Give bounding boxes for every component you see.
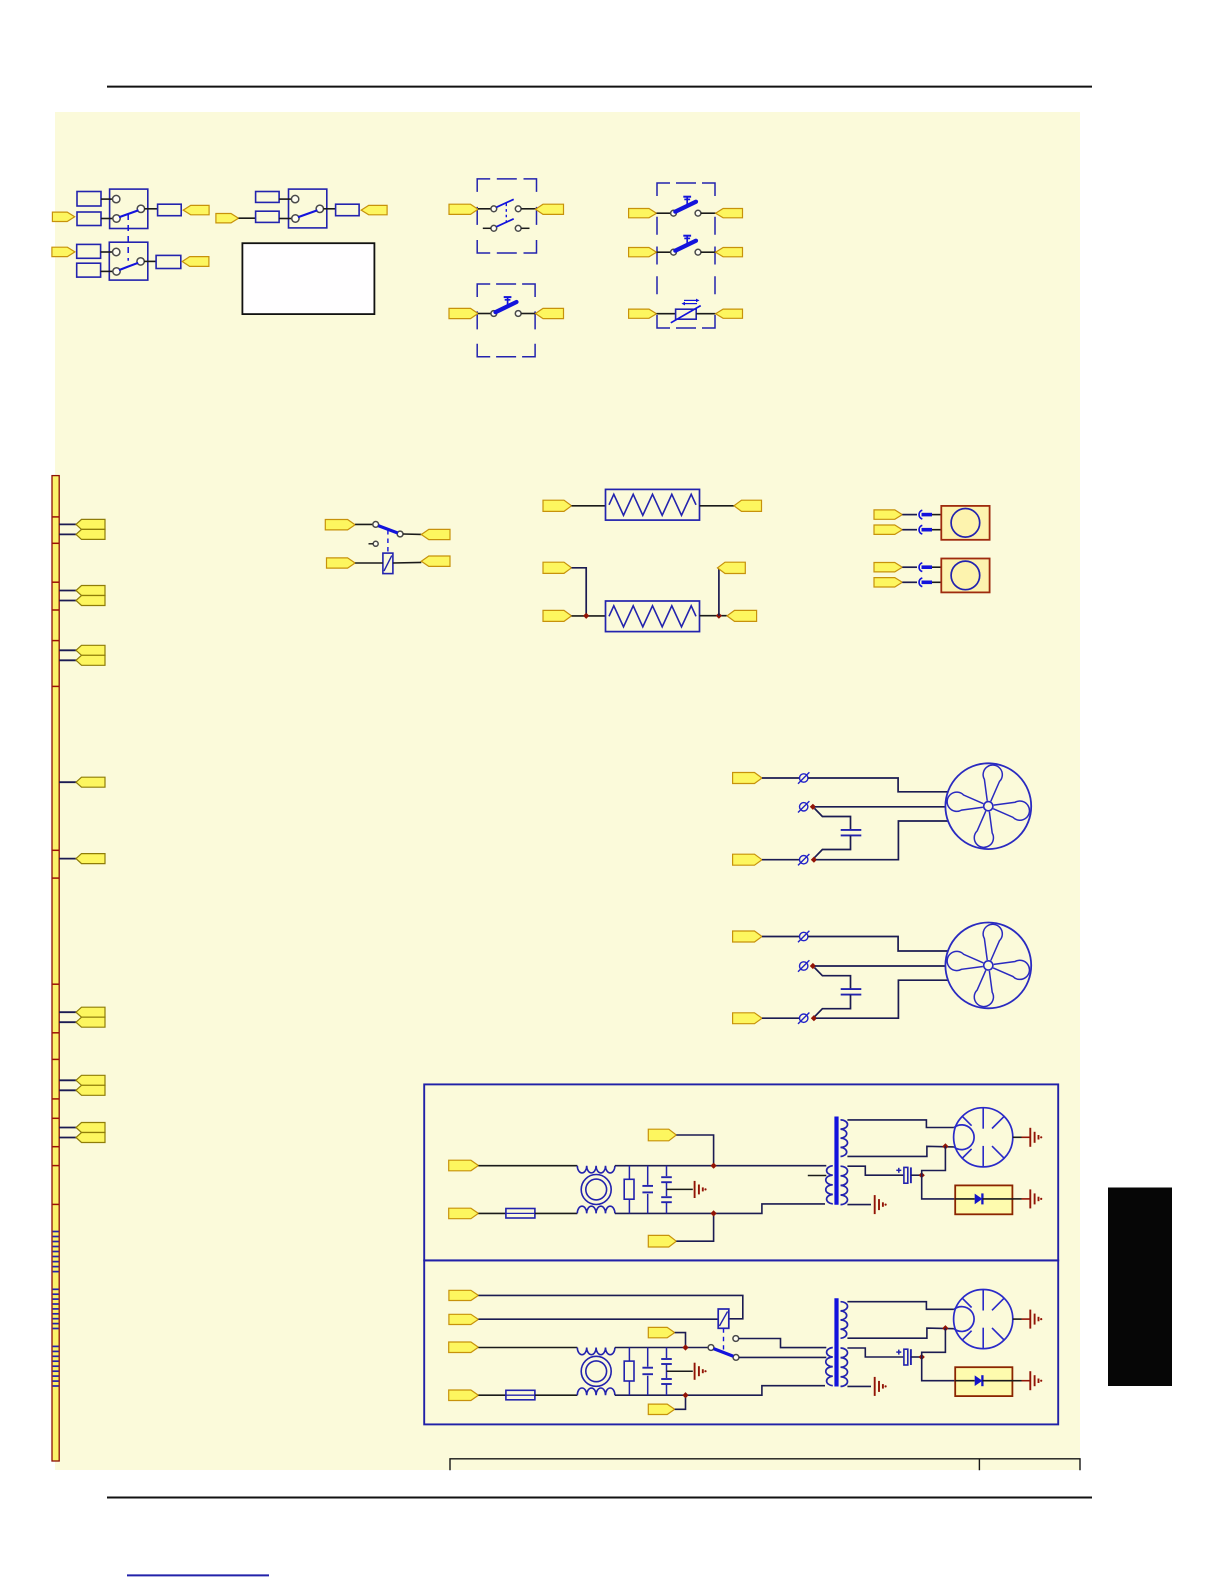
wire from capacitor: [814, 836, 850, 858]
wire filament bottom: [847, 1385, 871, 1387]
magnetron PSU1 vanes: [963, 1108, 1005, 1167]
bus connector CN8 (upper): [76, 1123, 105, 1133]
SW5 thermostat body: [676, 309, 697, 319]
wire: [657, 313, 676, 315]
switch SW1 pole A terminal box upper: [77, 192, 101, 207]
schematic background sheet: [55, 112, 1080, 1470]
connector PSU2 relay supply 2: [449, 1314, 479, 1324]
ground PSU1 transformer: [874, 1195, 876, 1214]
page header rule: [107, 86, 1092, 88]
HV diode PSU2: [955, 1380, 975, 1382]
junction: [810, 804, 816, 810]
heater R2 body: [606, 601, 700, 632]
wire: [101, 218, 113, 220]
bus wire tick group 3: [53, 1346, 59, 1386]
transformer T PSU1 core: [834, 1117, 838, 1205]
power unit box 2 outline: [424, 1260, 1058, 1424]
switch SW2 pin 2: [292, 215, 299, 222]
wire: [700, 505, 735, 507]
transformer T PSU1 tap stub: [808, 1175, 827, 1177]
bus connector CN1 (upper): [76, 519, 105, 529]
connector from heater R1: [734, 500, 762, 511]
wire: [144, 260, 156, 262]
relay K2 pin main: [733, 1355, 739, 1361]
choke L PSU1 lower winding: [577, 1206, 615, 1213]
ground PSU2 transformer: [874, 1377, 876, 1396]
lamp LP2 bulb: [951, 561, 980, 590]
wire: [478, 1318, 718, 1320]
wire: [279, 198, 292, 200]
wire: [902, 514, 917, 516]
inline terminal: [919, 525, 922, 534]
heater R1 body: [606, 489, 700, 520]
inline connector: [800, 856, 808, 864]
inline terminal: [919, 578, 922, 587]
bus connector CN5: [76, 854, 105, 864]
ground PSU2 filter: [694, 1363, 696, 1380]
connector to relay K1 coil: [327, 558, 356, 568]
junction: [919, 1172, 925, 1178]
connector from SW5 thermostat: [716, 309, 743, 318]
wire: [59, 1079, 76, 1081]
relay K2 coil: [718, 1309, 729, 1328]
wire: [144, 208, 157, 210]
ground PSU2 diode: [1029, 1371, 1031, 1390]
wire HV bottom: [847, 1328, 954, 1338]
wire to diode: [922, 1357, 956, 1381]
connector PSU2 relay supply 1: [449, 1290, 479, 1300]
connector to SW1 pole A: [52, 212, 74, 221]
wire: [701, 251, 716, 253]
switch SW3 boundary: [477, 179, 536, 253]
switch SW2 pin 3: [316, 205, 323, 212]
wire: [932, 529, 941, 531]
wire: [323, 208, 335, 210]
SW1 mechanical link (dashed): [127, 214, 129, 261]
wire: [478, 1165, 577, 1167]
relay K2 pin common: [708, 1345, 714, 1351]
wire: [762, 859, 799, 861]
SW5 row A pin R: [695, 210, 701, 216]
junction: [811, 1015, 817, 1021]
cable bus: [52, 476, 59, 1461]
wire: [902, 566, 917, 568]
fan FM2 hub: [984, 961, 993, 970]
inline connector: [800, 774, 808, 782]
fan FM1 hub: [984, 802, 993, 811]
switch SW4 boundary: [477, 284, 535, 357]
transformer T PSU1 HV secondary: [841, 1120, 848, 1157]
lamp LP1 bulb: [951, 509, 980, 538]
connector PSU1 line in: [449, 1160, 479, 1171]
inline terminal: [919, 510, 922, 519]
wire: [808, 937, 948, 952]
connector from heater R2 return B: [727, 610, 757, 621]
fan FM1 body: [945, 763, 1031, 849]
switch SW3 contact 2 lever: [496, 219, 513, 227]
connector from SW2: [361, 205, 387, 214]
wire: [101, 251, 113, 253]
switch SW3 contact 1 lever: [496, 199, 513, 207]
wire to diode: [922, 1175, 956, 1199]
wire: [478, 1212, 506, 1214]
switch SW1 pole B terminal box lower: [77, 263, 101, 277]
fan FM2 body: [945, 923, 1031, 1009]
wire stub: [483, 227, 491, 229]
connector to heater R1: [543, 500, 572, 511]
connector to SW4: [449, 308, 478, 318]
wire: [1012, 1380, 1021, 1382]
switch SW2 terminal box upper: [256, 192, 280, 203]
junction: [682, 1344, 688, 1350]
magnetron PSU2 filament arc: [954, 1307, 974, 1332]
wire: [932, 581, 941, 583]
X capacitor PSU1: [647, 1166, 649, 1185]
wire from main contact to tap: [739, 1356, 826, 1358]
connector to relay K1 common: [325, 520, 355, 530]
wire filament top: [847, 1348, 903, 1357]
wire: [667, 1370, 693, 1372]
wire: [932, 514, 941, 516]
wire: [815, 965, 946, 967]
wire: [762, 1017, 799, 1019]
transformer T PSU2 filament winding: [841, 1348, 848, 1386]
wire: [59, 1011, 76, 1013]
relay K1 link dashed: [387, 530, 389, 553]
wire: [59, 523, 76, 525]
magnetron PSU1 body: [954, 1108, 1013, 1167]
transformer T PSU2 HV secondary: [841, 1302, 848, 1339]
wire: [700, 615, 728, 617]
switch SW1 pole A pin 1: [113, 195, 120, 202]
switch SW2 terminal box lower: [256, 211, 280, 222]
connector to SW5 row B: [629, 248, 657, 257]
wire: [667, 1188, 693, 1190]
connector to SW1 pole B: [52, 247, 75, 256]
wire stub: [369, 543, 374, 545]
fuse F PSU2: [506, 1390, 535, 1400]
connector PSU2 aux bottom: [648, 1404, 674, 1414]
wire: [696, 313, 715, 315]
wire: [59, 533, 76, 535]
wire: [59, 590, 76, 592]
wire: [521, 313, 535, 315]
connector to fan FM2 line 2: [733, 1013, 762, 1024]
wire: [535, 1394, 577, 1396]
wire: [808, 778, 948, 792]
footer table: [450, 1459, 1080, 1471]
wire: [675, 1395, 686, 1409]
bleeder resistor PSU1: [628, 1166, 630, 1214]
switch SW1 output box B: [156, 255, 181, 268]
ground PSU1 filter: [694, 1181, 696, 1198]
junction: [811, 857, 817, 863]
wire from NO: [739, 1339, 827, 1348]
fan FM1 blades: [941, 759, 1035, 853]
switch SW2 lever: [298, 210, 318, 217]
HV diode PSU2 box: [955, 1367, 1012, 1396]
wire: [615, 1204, 825, 1214]
junction: [583, 613, 589, 619]
ground PSU2 magnetron: [1029, 1310, 1031, 1329]
magnetron PSU2 vanes: [963, 1290, 1005, 1349]
HV capacitor PSU1: [904, 1167, 908, 1183]
wire: [59, 659, 76, 661]
switch SW1 pole B body: [109, 242, 148, 280]
wire: [355, 562, 383, 564]
SW5 thermostat diagonal: [671, 306, 701, 323]
switch SW1 pole B lever: [119, 263, 138, 270]
lamp LP1 body: [941, 506, 989, 540]
wire: [911, 1356, 922, 1358]
switch SW2 pin 1: [291, 195, 298, 202]
transformer T PSU1 primary: [826, 1166, 833, 1204]
bus connector CN3 (upper): [76, 645, 105, 655]
connector to fan FM1 line 1: [733, 773, 762, 784]
wire: [355, 523, 373, 525]
SW5 row B pin R: [695, 249, 701, 255]
connector from SW1 pole A: [183, 205, 209, 214]
switch block SW5 boundary: [657, 183, 715, 328]
SW5 row B pin L: [671, 249, 677, 255]
switch SW1 pole B terminal box upper: [77, 244, 101, 258]
junction: [942, 1143, 948, 1149]
connector to lamp LP2 (lower): [874, 578, 902, 587]
junction: [919, 1354, 925, 1360]
bus wire tick group 2: [53, 1289, 59, 1328]
wire: [816, 980, 948, 1018]
switch SW3 contact 1 pin L: [491, 206, 497, 212]
connector to lamp LP2 (upper): [874, 563, 902, 572]
wire: [478, 1347, 577, 1349]
connector from relay K1 coil: [421, 556, 450, 566]
relay K2 pin NO: [733, 1336, 739, 1342]
wire: [657, 212, 671, 214]
bus wire tick group 1: [53, 1232, 59, 1272]
wire to capacitor: [815, 968, 851, 989]
connector PSU2 line in: [449, 1342, 479, 1353]
connector from SW5 row A: [716, 209, 743, 218]
connector to heater R2 feed B: [543, 610, 572, 621]
wire: [572, 505, 606, 507]
connector to SW2: [216, 214, 239, 223]
wire: [762, 936, 799, 938]
wire: [932, 566, 941, 568]
page number tab: [1108, 1188, 1172, 1387]
X capacitor PSU2: [647, 1348, 649, 1367]
switch SW1 pole A body: [110, 189, 148, 228]
bus connector CN1 (lower): [76, 529, 105, 539]
switch SW1 pole A pin 3: [137, 205, 144, 212]
wire: [572, 568, 587, 616]
SW5 row B lever: [675, 241, 696, 251]
heater R2 element: [609, 606, 696, 627]
SW5 row A lever: [675, 202, 696, 212]
inline terminal: [919, 563, 922, 572]
HV diode PSU1 box: [955, 1185, 1012, 1214]
Y capacitors PSU1: [666, 1166, 668, 1177]
junction: [942, 1325, 948, 1331]
Y capacitors PSU2: [666, 1348, 668, 1359]
switch SW1 pole B pin 2: [113, 268, 120, 275]
HV capacitor PSU2: [904, 1349, 908, 1365]
connector from relay K1 contact: [421, 529, 450, 539]
notes box: [242, 243, 374, 314]
wire: [478, 1295, 742, 1318]
wire: [1013, 1318, 1022, 1320]
wire: [615, 1165, 826, 1167]
SW5 thermostat arrows: [684, 299, 696, 301]
wire: [393, 561, 421, 564]
connector to heater R2 feed A: [543, 562, 572, 573]
relay K2 link dashed: [723, 1328, 725, 1349]
switch SW1 pole B pin 3: [137, 258, 144, 265]
transformer T PSU2 core: [834, 1298, 838, 1386]
inline connector: [800, 803, 808, 811]
magnetron PSU1 filament arc: [954, 1125, 974, 1150]
bleeder resistor PSU2: [628, 1348, 630, 1396]
connector from heater R2 return A: [718, 562, 746, 573]
choke L PSU2 lower winding: [577, 1388, 615, 1395]
connector PSU1 neutral in: [449, 1208, 479, 1219]
transformer T PSU1 filament winding: [841, 1166, 848, 1204]
junction: [710, 1163, 716, 1169]
power unit box 1 outline: [424, 1084, 1058, 1260]
wire: [478, 208, 491, 210]
footer link underline: [127, 1574, 269, 1576]
relay K1 pin common: [373, 522, 379, 528]
bus connector CN8 (lower): [76, 1133, 105, 1143]
choke L PSU2 upper winding: [577, 1348, 615, 1355]
lamp LP2 body: [941, 559, 989, 593]
wire: [1013, 1136, 1022, 1138]
bus connector CN4: [76, 777, 105, 787]
wire filament top: [847, 1166, 903, 1175]
wire: [521, 208, 535, 210]
wire from capacitor: [814, 995, 850, 1017]
connector PSU1 aux bottom: [648, 1235, 676, 1247]
wire: [572, 615, 606, 617]
wire: [101, 270, 114, 272]
switch SW1 pole B pin 1: [113, 248, 120, 255]
wire: [657, 251, 671, 253]
bus connector CN2 (lower): [76, 596, 105, 606]
wire: [676, 1213, 713, 1241]
wire: [615, 1386, 825, 1396]
switch SW2 output box: [336, 204, 360, 216]
transformer T PSU2 primary: [826, 1348, 833, 1386]
wire: [59, 600, 76, 602]
wire: [239, 217, 256, 219]
magnetron PSU2 body: [954, 1290, 1013, 1349]
relay K1 pin NC: [373, 541, 378, 546]
wire: [816, 821, 948, 860]
wire: [718, 568, 719, 616]
switch SW2 body: [289, 189, 327, 228]
connector from SW3: [536, 204, 564, 214]
choke L PSU1 core: [581, 1175, 611, 1205]
wire: [59, 649, 76, 651]
junction: [810, 963, 816, 969]
wire: [279, 218, 292, 220]
wire: [762, 777, 799, 779]
connector to SW3: [449, 204, 478, 214]
wire HV bottom: [847, 1146, 954, 1156]
wire: [922, 1146, 946, 1175]
wire: [478, 1394, 506, 1396]
wire stub: [521, 227, 529, 229]
relay K2 lever: [714, 1349, 734, 1357]
bus connector CN2 (upper): [76, 586, 105, 596]
junction: [682, 1392, 688, 1398]
bus connector CN6 (lower): [76, 1017, 105, 1027]
connector to fan FM2 line 1: [733, 931, 762, 942]
wire: [615, 1347, 708, 1349]
switch SW3 contact 1 pin R: [515, 206, 521, 212]
relay K1 lever: [378, 526, 398, 533]
wire: [59, 1021, 76, 1023]
SW5 row A pin L: [671, 210, 677, 216]
connector from SW5 row B: [716, 248, 743, 257]
inline connector: [800, 1014, 808, 1022]
connector to lamp LP1 (upper): [874, 510, 902, 519]
switch SW3 contact 2 pin R: [515, 225, 521, 231]
connector from SW1 pole B: [182, 257, 209, 267]
switch SW4 pin L: [491, 311, 497, 317]
fuse F PSU1: [506, 1209, 535, 1219]
wire: [403, 533, 421, 535]
wire: [701, 212, 716, 214]
SW3 link dotted: [505, 204, 507, 224]
fan FM2 capacitor: [841, 988, 862, 990]
HV diode PSU1: [955, 1198, 975, 1200]
junction: [716, 613, 722, 619]
bus connector CN7 (upper): [76, 1075, 105, 1085]
wire: [911, 1174, 922, 1176]
switch SW1 output box A: [158, 204, 182, 216]
fan FM2 blades: [941, 919, 1035, 1013]
wire: [59, 1127, 76, 1129]
connector to fan FM1 line 2: [733, 854, 762, 865]
wire: [59, 858, 76, 860]
wire: [59, 1137, 76, 1139]
switch SW1 pole A lever: [119, 210, 139, 217]
inline connector: [800, 962, 808, 970]
choke L PSU2 core: [581, 1356, 611, 1386]
wire: [815, 806, 946, 808]
wire HV top: [847, 1120, 954, 1128]
switch SW1 pole A terminal box lower: [77, 212, 101, 226]
bus connector CN7 (lower): [76, 1085, 105, 1095]
connector PSU2 aux top: [648, 1327, 674, 1337]
wire: [59, 1089, 76, 1091]
ground PSU1 diode: [1029, 1189, 1031, 1208]
wire: [902, 529, 917, 531]
bus segment ticks: [52, 517, 59, 1205]
wire: [101, 198, 113, 200]
heater R1 element: [609, 494, 696, 515]
connector to SW5 thermostat: [629, 309, 657, 318]
wire: [922, 1328, 946, 1357]
fan FM1 capacitor: [841, 829, 862, 831]
bus connector CN6 (upper): [76, 1007, 105, 1017]
wire: [59, 781, 76, 783]
ground PSU1 magnetron: [1029, 1128, 1031, 1147]
junction: [710, 1210, 716, 1216]
switch SW1 pole A pin 2: [113, 215, 120, 222]
connector to lamp LP1 (lower): [874, 525, 902, 534]
switch SW4 lever: [496, 302, 517, 312]
